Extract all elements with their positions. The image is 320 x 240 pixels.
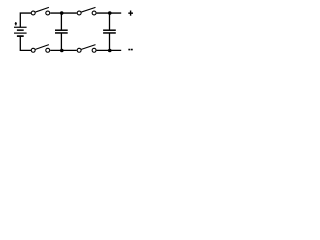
node A top junction dot — [60, 11, 64, 15]
wire bottom rail right segment — [97, 49, 122, 51]
switch S1 top-left — [31, 7, 49, 15]
wire top rail middle segment — [50, 12, 77, 14]
node B top junction dot — [108, 11, 112, 15]
terminal - negative output — [128, 49, 132, 51]
switch S2 top-right — [77, 7, 96, 15]
node D bottom junction dot — [108, 49, 112, 53]
wire battery negative to bottom rail segment — [20, 36, 31, 50]
capacitor C1 — [55, 13, 68, 50]
capacitor C2 — [103, 13, 116, 50]
wire top rail right segment — [97, 12, 122, 14]
switch S4 bottom-right — [77, 45, 96, 53]
battery polarity marker + — [15, 22, 17, 25]
battery B1 — [14, 27, 27, 36]
node C bottom junction dot — [60, 49, 64, 53]
wire battery positive to top rail segment — [20, 13, 31, 28]
terminal + positive output — [128, 11, 133, 16]
switch S3 bottom-left — [31, 45, 49, 53]
wire bottom rail middle segment — [50, 49, 77, 51]
